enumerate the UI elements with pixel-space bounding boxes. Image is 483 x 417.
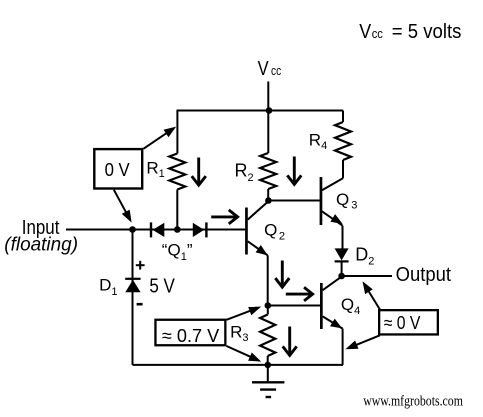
svg-text:V: V <box>258 58 270 80</box>
svg-text:R2: R2 <box>235 161 254 184</box>
svg-text:cc: cc <box>372 26 384 41</box>
svg-text:cc: cc <box>271 64 281 78</box>
svg-text:Q2: Q2 <box>264 220 285 242</box>
svg-text:(floating): (floating) <box>4 234 78 255</box>
svg-text:≈ 0 V: ≈ 0 V <box>384 312 421 333</box>
svg-text:R1: R1 <box>146 158 164 180</box>
svg-text:D2: D2 <box>355 245 374 268</box>
svg-text:www.mfgrobots.com: www.mfgrobots.com <box>363 393 463 409</box>
svg-text:R3: R3 <box>230 322 248 344</box>
svg-text:≈ 0.7 V: ≈ 0.7 V <box>162 325 220 346</box>
svg-text:Q3: Q3 <box>336 190 357 212</box>
svg-text:D1: D1 <box>99 276 117 298</box>
svg-text:0 V: 0 V <box>105 160 130 180</box>
svg-text:= 5 volts: = 5 volts <box>392 21 462 43</box>
svg-text:“Q1”: “Q1” <box>162 241 193 264</box>
svg-text:Output: Output <box>396 264 452 286</box>
svg-text:V: V <box>359 21 371 43</box>
svg-text:Q4: Q4 <box>341 295 360 317</box>
svg-text:5 V: 5 V <box>149 276 175 298</box>
svg-text:R4: R4 <box>309 131 327 152</box>
